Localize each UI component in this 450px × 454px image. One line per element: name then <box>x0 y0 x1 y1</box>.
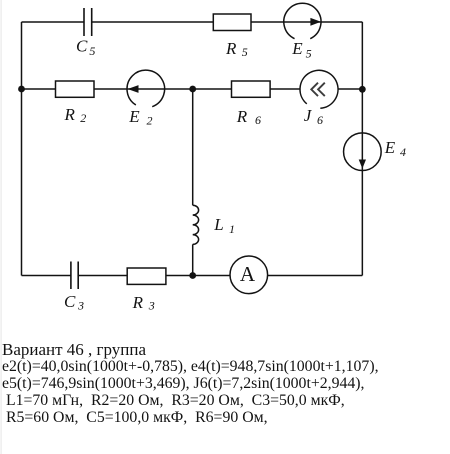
label R6 <box>236 107 261 127</box>
resistor R3 <box>127 268 166 284</box>
source J6 <box>300 70 338 108</box>
svg-text:E: E <box>384 138 396 157</box>
resistor R6 <box>232 81 271 97</box>
label J6 <box>304 106 323 127</box>
label R2 <box>64 105 87 125</box>
svg-text:5: 5 <box>306 46 312 60</box>
label E5 <box>291 39 311 60</box>
wire middle row <box>22 88 363 90</box>
svg-text:5: 5 <box>242 45 248 59</box>
node center-bottom <box>189 272 196 279</box>
label R3 <box>132 293 155 313</box>
source E2 <box>127 70 165 106</box>
node right-middle <box>359 86 366 93</box>
wire left <box>21 22 23 276</box>
capacitor C5 <box>84 8 92 36</box>
svg-text:3: 3 <box>148 299 155 313</box>
label C5 <box>76 37 95 58</box>
svg-text:5: 5 <box>89 44 95 58</box>
svg-text:A: A <box>240 262 256 286</box>
node center-middle <box>189 86 196 93</box>
svg-text:C: C <box>76 37 88 56</box>
svg-text:J: J <box>304 106 313 125</box>
svg-text:R: R <box>132 293 144 312</box>
wire middle vertical <box>192 89 194 276</box>
svg-text:R: R <box>225 39 237 58</box>
resistor R2 <box>56 81 95 97</box>
svg-text:4: 4 <box>400 145 406 159</box>
text block: variant description <box>2 358 379 426</box>
ammeter A <box>230 256 268 294</box>
svg-text:L: L <box>213 215 223 234</box>
wire bottom <box>22 275 363 277</box>
svg-text:2: 2 <box>147 114 153 128</box>
svg-text:6: 6 <box>317 113 323 127</box>
window edge line <box>1 0 2 454</box>
label E4 <box>384 138 406 159</box>
label L1 <box>213 215 235 236</box>
label C3 <box>64 292 84 312</box>
svg-text:E: E <box>291 39 303 58</box>
svg-text:E: E <box>128 107 140 126</box>
text heading: Вариант 46 <box>2 341 146 358</box>
inductor L1 <box>193 205 199 244</box>
node left-middle <box>18 86 25 93</box>
svg-text:1: 1 <box>229 222 235 236</box>
svg-text:2: 2 <box>80 111 86 125</box>
resistor R5 <box>213 14 251 31</box>
svg-text:R: R <box>64 105 76 124</box>
wire top <box>22 21 363 23</box>
capacitor C3 <box>71 262 78 290</box>
source E4 <box>344 133 382 171</box>
label E2 <box>128 107 152 127</box>
source E5 <box>284 3 321 38</box>
wire right <box>361 22 363 276</box>
svg-text:C: C <box>64 292 76 311</box>
svg-text:R: R <box>236 107 248 126</box>
label R5 <box>225 39 248 59</box>
svg-text:6: 6 <box>255 113 261 127</box>
svg-text:3: 3 <box>77 298 84 312</box>
